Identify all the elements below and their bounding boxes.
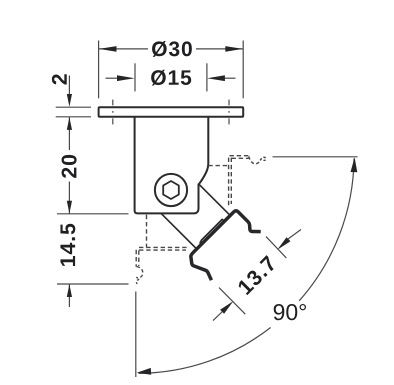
- flange plate (mounting plate, top edge view): [99, 107, 244, 117]
- dim-13.7 extension line lower: [219, 288, 245, 315]
- dia30 arrowhead right: [225, 46, 243, 52]
- dim-2 arrowhead down: [67, 94, 72, 107]
- hidden rail flange line 2: [232, 157, 249, 159]
- hidden rail web line 1: [228, 158, 230, 206]
- suspension clip profile (thick bent strip): [191, 211, 261, 280]
- dim-13.7 arrow tail upper: [288, 230, 301, 240]
- 90deg arc upper segment: [299, 159, 354, 301]
- hex socket recess: [163, 181, 179, 199]
- dia15 arrow tail left: [106, 77, 121, 79]
- dia30 extension line right: [242, 41, 244, 99]
- dia30 extension line left: [98, 41, 100, 99]
- label 14.5: [60, 224, 75, 266]
- dim-14.5 arrow tail bottom: [68, 284, 70, 307]
- dia30 arrowhead left: [99, 46, 117, 52]
- dim-2 arrow tail top: [68, 76, 70, 96]
- label dia30: [152, 41, 192, 57]
- hidden rail flange line 1: [230, 155, 249, 157]
- 90deg arc arrowhead up: [351, 157, 358, 172]
- hidden rail web line 2: [230, 158, 232, 204]
- screw hole centerline left: [112, 100, 114, 125]
- clip spring tab edge: [200, 219, 225, 243]
- dim-20 dimension line: [68, 117, 70, 214]
- screw hole centerline right: [228, 100, 230, 125]
- dia15 arrow tail right: [222, 77, 236, 79]
- 90deg datum line horizontal: [273, 156, 358, 158]
- dim-20 arrowhead down: [67, 201, 72, 214]
- label 20: [62, 155, 77, 178]
- hidden rail 90deg flange line 1: [139, 246, 187, 248]
- pivot arm lower edge: [162, 214, 197, 249]
- dim-13.7 arrow tail lower: [213, 311, 224, 321]
- dia15 arrowhead right: [207, 75, 225, 81]
- flange top extension line: [56, 106, 91, 108]
- dim-13.7 arrowhead lower: [220, 301, 233, 314]
- label 2: [52, 74, 67, 84]
- hidden rail 90deg flange line 2: [139, 249, 186, 251]
- dim-14.5 arrowhead up: [67, 284, 72, 297]
- label 90deg: [274, 304, 306, 320]
- 90deg arc lower segment: [139, 328, 271, 374]
- hidden rail 90deg web line 2: [138, 250, 140, 266]
- body bottom extension line: [57, 213, 129, 215]
- label 13.7: [237, 255, 277, 295]
- dim-13.7 extension line upper: [266, 237, 286, 258]
- label dia15: [151, 70, 191, 86]
- dia15 arrowhead left: [117, 75, 135, 81]
- dia15 extension tick left: [134, 63, 136, 91]
- dia30 dimension line: [99, 48, 244, 50]
- hidden rail 90deg lip curl: [136, 267, 143, 278]
- dim-13.7 arrowhead upper: [277, 237, 290, 250]
- hidden rail lip end hook: [260, 157, 266, 160]
- 90deg datum line vertical: [135, 292, 137, 378]
- hidden rail (0 deg position) top edge: [208, 165, 229, 167]
- hidden rail lip curl: [249, 156, 260, 164]
- hex socket screw outer circle: [155, 174, 187, 206]
- pivot arm upper edge: [199, 184, 231, 216]
- body (round stem housing): [135, 118, 209, 213]
- dia15 extension tick right: [206, 63, 208, 91]
- flange bottom extension line: [56, 116, 91, 118]
- hidden rail 90deg lip end hook: [136, 279, 139, 284]
- clip bottom extension line: [57, 283, 129, 285]
- 90deg arc arrowhead left: [137, 368, 152, 375]
- hidden rail 90deg web line 1: [135, 250, 137, 267]
- hidden rail (90 deg position) side edge: [146, 215, 148, 247]
- dim-20 arrowhead up: [67, 117, 72, 130]
